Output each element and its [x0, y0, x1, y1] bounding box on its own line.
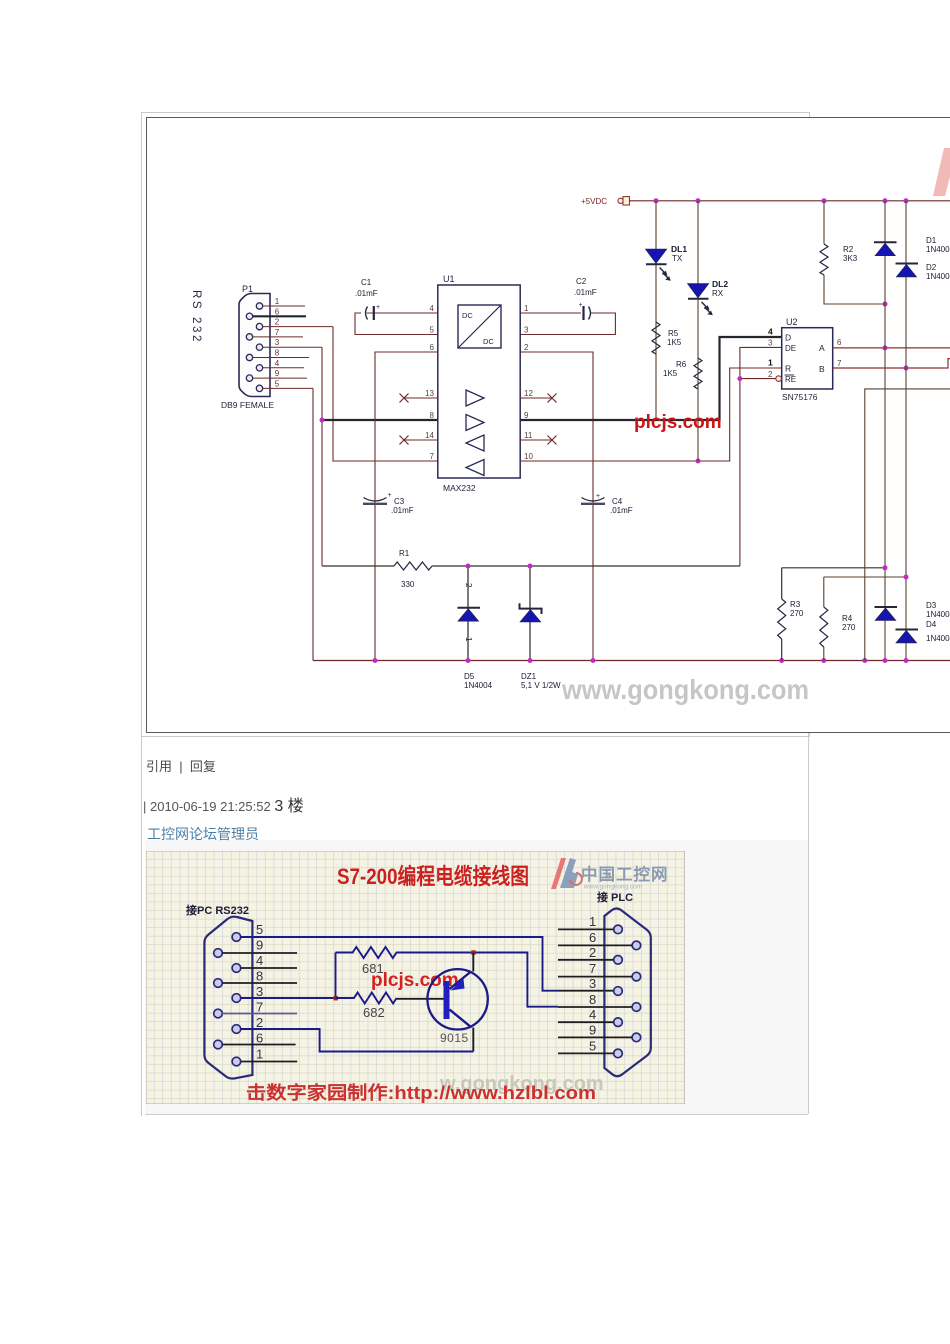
capacitor C1 symbol — [366, 307, 368, 320]
svg-text:5: 5 — [256, 922, 263, 937]
chip U2 SN75176 body — [782, 328, 833, 389]
svg-text:DC: DC — [462, 311, 473, 320]
svg-text:8: 8 — [256, 969, 263, 984]
node emitter junction — [471, 950, 475, 954]
svg-text:9: 9 — [256, 938, 263, 953]
svg-text:www.gongkong.com: www.gongkong.com — [583, 884, 642, 891]
svg-text:+: + — [376, 304, 380, 311]
svg-text:1: 1 — [768, 358, 773, 368]
wire: right pin3 black segment — [559, 990, 614, 992]
SCHEMATIC 2 — [146, 851, 685, 1104]
svg-text:4: 4 — [768, 327, 773, 337]
LED DL2 — [688, 284, 709, 298]
capacitor C4 symbol — [582, 498, 605, 502]
svg-text:S7-200编程电缆接线图: S7-200编程电缆接线图 — [337, 864, 529, 889]
svg-text:6: 6 — [837, 338, 842, 347]
P1 pin 6 thick stub — [253, 315, 306, 317]
gray content panel of post 3 — [145, 840, 808, 1115]
svg-text:.01mF: .01mF — [610, 506, 633, 515]
svg-text:SN75176: SN75176 — [782, 392, 818, 402]
U1 buffer triangles — [466, 390, 484, 476]
svg-text:5,1 V 1/2W: 5,1 V 1/2W — [521, 681, 561, 690]
resistor R5 — [652, 322, 660, 354]
svg-text:D3: D3 — [926, 601, 937, 610]
svg-text:DL1: DL1 — [671, 244, 687, 254]
right DB9 connector body — [604, 909, 650, 1077]
svg-text:8: 8 — [430, 411, 435, 420]
right DB9 pin circles — [614, 925, 641, 1058]
svg-text:R2: R2 — [843, 245, 854, 254]
resistor R2 branch — [824, 201, 885, 304]
svg-text:+: + — [388, 492, 392, 499]
wire: left pin3 to resistor node — [241, 997, 336, 999]
wire: U1 pin2 to C4 and ground rail — [520, 352, 593, 661]
SCHEMATIC 1 — [146, 117, 950, 733]
diode D1 — [874, 241, 897, 243]
svg-text:+: + — [579, 302, 583, 309]
svg-text:C2: C2 — [576, 277, 587, 286]
svg-text:+5VDC: +5VDC — [581, 197, 607, 206]
svg-text:RE: RE — [785, 375, 796, 384]
svg-text:C1: C1 — [361, 278, 372, 287]
svg-text:7: 7 — [430, 452, 435, 461]
left DB9 connector body — [204, 917, 252, 1079]
svg-text:7: 7 — [256, 1000, 263, 1015]
svg-text:12: 12 — [524, 389, 533, 398]
svg-text:.01mF: .01mF — [574, 288, 597, 297]
svg-text:A: A — [819, 343, 825, 353]
svg-text:R3: R3 — [790, 600, 801, 609]
post table right border — [808, 733, 809, 1114]
svg-text:6: 6 — [589, 930, 596, 945]
svg-text:D2: D2 — [926, 263, 937, 272]
junction P1-3/U1-8 — [320, 418, 325, 423]
svg-text:plcjs.com: plcjs.com — [634, 412, 722, 433]
svg-text:1N4004: 1N4004 — [926, 634, 950, 643]
svg-text:3: 3 — [768, 339, 773, 348]
svg-text:RS 232: RS 232 — [190, 290, 202, 344]
svg-text:2: 2 — [524, 343, 529, 352]
junction DE/RE — [737, 376, 742, 381]
forum action links — [146, 756, 216, 775]
P1 pin circles — [246, 303, 262, 392]
svg-text:B: B — [819, 364, 825, 374]
svg-text:7: 7 — [275, 328, 280, 337]
resistor 682 — [336, 993, 397, 1004]
capacitor C3 symbol — [364, 498, 387, 502]
svg-text:DE: DE — [785, 344, 796, 353]
post date line — [143, 792, 304, 816]
zener DZ1 branch — [529, 566, 531, 661]
resistor R3 — [778, 599, 786, 639]
svg-text:2: 2 — [256, 1015, 263, 1030]
svg-text:2: 2 — [589, 945, 596, 960]
svg-text:330: 330 — [401, 580, 415, 589]
diode D1 branch wire — [884, 201, 886, 661]
logo mark — [551, 858, 566, 889]
diode D3 — [875, 606, 898, 608]
transistor collector arm — [450, 1010, 472, 1028]
svg-text:DL2: DL2 — [712, 279, 728, 289]
svg-text:DB9 FEMALE: DB9 FEMALE — [221, 400, 274, 410]
svg-text:接 PLC: 接 PLC — [597, 890, 633, 904]
pink logo fragment top right — [933, 148, 950, 196]
svg-text:10: 10 — [524, 452, 533, 461]
svg-text:4: 4 — [275, 359, 280, 368]
wire: collector down to pin2 row — [472, 1028, 474, 1052]
svg-text:5: 5 — [589, 1039, 596, 1054]
wire: left pin2 jog to collector — [241, 1029, 474, 1052]
svg-text:R6: R6 — [676, 360, 687, 369]
U1 pin12 stub with X — [520, 397, 552, 399]
svg-text:6: 6 — [275, 307, 280, 316]
resistor R1 — [394, 562, 432, 570]
svg-text:1N4004: 1N4004 — [464, 681, 493, 690]
junction R6/pin10 — [696, 459, 701, 464]
node 681/682 junction — [335, 953, 337, 999]
svg-text:R1: R1 — [399, 549, 410, 558]
svg-text:C3: C3 — [394, 497, 405, 506]
right DB9 stub wires — [558, 929, 632, 1053]
right DB9 pin numbers — [589, 914, 596, 1054]
svg-text:.01mF: .01mF — [355, 289, 378, 298]
op chip U1 MAX232 body — [438, 285, 520, 478]
svg-text:5: 5 — [275, 379, 280, 388]
svg-text:1K5: 1K5 — [667, 338, 682, 347]
U1 DC/DC converter block — [458, 305, 501, 348]
resistor R1 wire row — [322, 565, 740, 567]
wire: P1 pin5 to bottom rail — [312, 388, 314, 660]
svg-text:R4: R4 — [842, 614, 853, 623]
svg-text:3: 3 — [524, 326, 529, 335]
capacitor C1 loop wires (U1 pins 4,5) — [355, 313, 438, 335]
capacitor C2 loop wires (U1 pins 1,3) — [520, 313, 615, 335]
svg-text:1N4004: 1N4004 — [926, 245, 950, 254]
wire: emitter up to node — [472, 953, 474, 972]
svg-text:1: 1 — [464, 637, 473, 642]
capacitor C2 symbol — [582, 306, 584, 320]
transistor emitter arm with arrow — [450, 972, 472, 990]
wire: U1 pin10 to R6 bottom and U2 R — [520, 368, 782, 461]
U1 pin14 stub with X — [404, 439, 438, 441]
wire: DL2/R6 branch — [697, 201, 699, 461]
transistor Q1 9015 circle — [427, 969, 487, 1029]
U1 pin11 stub with X — [520, 439, 552, 441]
svg-text:270: 270 — [842, 623, 856, 632]
svg-text:U1: U1 — [443, 274, 455, 284]
svg-text:MAX232: MAX232 — [443, 483, 476, 493]
svg-text:R5: R5 — [668, 329, 679, 338]
svg-text:R: R — [785, 364, 791, 374]
svg-text:13: 13 — [425, 389, 434, 398]
wire: U2 RE pin2 with bubble — [740, 378, 776, 380]
svg-text:14: 14 — [425, 431, 434, 440]
svg-text:9: 9 — [589, 1023, 596, 1038]
wire: U1 pin6 to C3 and ground rail — [375, 352, 438, 661]
svg-text:D5: D5 — [464, 672, 475, 681]
connector P1 DB9 FEMALE body — [239, 294, 270, 397]
svg-text:C4: C4 — [612, 497, 623, 506]
svg-text:2: 2 — [275, 318, 280, 327]
wire: DL1/R5 branch — [655, 201, 657, 420]
wire: U1 pin9 thick to U2 D — [520, 337, 782, 420]
svg-text:1: 1 — [589, 914, 596, 929]
wire: U2 B output with jog — [833, 359, 950, 368]
resistor R4 branch — [824, 577, 906, 661]
U1 pin13 stub with X — [404, 397, 438, 399]
top container box with light border — [141, 112, 810, 737]
wire: base from 682 — [397, 998, 444, 1000]
svg-text:9: 9 — [524, 411, 529, 420]
svg-text:1N4004: 1N4004 — [926, 610, 950, 619]
left DB9 pin circles — [214, 933, 241, 1066]
svg-text:9: 9 — [275, 369, 280, 378]
svg-text:DZ1: DZ1 — [521, 672, 537, 681]
svg-text:U2: U2 — [786, 317, 798, 327]
wire: U2 DE pin3 — [740, 347, 782, 566]
ground rail — [313, 660, 950, 662]
zener DZ1 — [520, 603, 542, 614]
wire: P1 pin2 to U1 pin7 — [333, 327, 438, 461]
svg-text:3: 3 — [275, 338, 280, 347]
svg-text:6: 6 — [256, 1031, 263, 1046]
diode D2 — [896, 263, 919, 265]
svg-text:2: 2 — [464, 583, 473, 588]
svg-text:1: 1 — [524, 304, 529, 313]
svg-text:4: 4 — [589, 1007, 596, 1022]
svg-text:TX: TX — [672, 254, 683, 263]
svg-text:4: 4 — [430, 304, 435, 313]
svg-text:中国工控网: 中国工控网 — [581, 864, 669, 884]
svg-text:1: 1 — [256, 1047, 263, 1062]
svg-text:RX: RX — [712, 289, 724, 298]
svg-text:6: 6 — [430, 343, 435, 352]
svg-text:D4: D4 — [926, 620, 937, 629]
P1 pin numbers — [275, 297, 280, 388]
svg-text:4: 4 — [256, 953, 263, 968]
LED DL1 — [646, 249, 667, 263]
svg-text:接PC RS232: 接PC RS232 — [186, 903, 249, 917]
svg-text:7: 7 — [837, 359, 842, 368]
svg-text:D1: D1 — [926, 236, 937, 245]
schematic 2 paper background — [146, 851, 685, 1104]
wire: right gnd return — [865, 389, 950, 661]
svg-text:7: 7 — [589, 961, 596, 976]
wire: emitter net to right pin8 — [474, 953, 559, 1007]
U1 pin numbers left — [425, 304, 434, 461]
svg-text:1: 1 — [275, 297, 280, 306]
svg-text:1K5: 1K5 — [663, 369, 678, 378]
svg-text:P1: P1 — [242, 284, 253, 294]
resistor R4 — [820, 607, 828, 647]
schematic 1 image background/border — [147, 118, 950, 733]
rail junctions — [654, 198, 659, 203]
diode D4 — [896, 629, 919, 631]
wire: left pin5 to right pin3 — [241, 937, 559, 991]
svg-text:www.gongkong.com: www.gongkong.com — [561, 674, 809, 705]
P1 pin stub wires — [253, 306, 333, 388]
svg-text:DC: DC — [483, 337, 494, 346]
diode D5 branch — [467, 566, 469, 661]
svg-text:3: 3 — [589, 976, 596, 991]
left DB9 stub wires — [222, 953, 297, 1062]
resistor R6 — [694, 358, 702, 389]
U1 pin numbers right — [524, 304, 533, 461]
svg-text:270: 270 — [790, 609, 804, 618]
svg-text:D: D — [785, 333, 791, 343]
username link — [147, 824, 259, 844]
svg-text:682: 682 — [363, 1005, 385, 1020]
svg-text:2: 2 — [768, 370, 773, 379]
+5VDC rail wire — [630, 200, 950, 202]
svg-text:1N4004: 1N4004 — [926, 272, 950, 281]
wire: U2 A output — [833, 347, 950, 349]
svg-text:3K3: 3K3 — [843, 254, 858, 263]
svg-text:11: 11 — [524, 431, 533, 440]
svg-text:9015: 9015 — [440, 1031, 469, 1045]
wire: U1 pin8 thick — [322, 419, 438, 421]
resistor 681 — [336, 947, 474, 958]
diode D5 — [458, 607, 481, 609]
diode D2 branch wire — [905, 201, 907, 661]
svg-text:.01mF: .01mF — [391, 506, 414, 515]
svg-text:8: 8 — [275, 349, 280, 358]
left pin7 stub — [222, 1013, 297, 1015]
transistor base bar — [444, 981, 450, 1019]
left DB9 pin numbers — [256, 922, 263, 1062]
rail junction dots — [373, 658, 378, 663]
wire: P1 pin3 down to U1 pin8 node and R1 — [321, 347, 323, 566]
svg-text:击数字家园制作:http://www.hzlbl.com: 击数字家园制作:http://www.hzlbl.com — [246, 1082, 596, 1103]
resistor R3 branch — [782, 568, 885, 661]
svg-text:+: + — [596, 493, 600, 500]
svg-text:3: 3 — [256, 984, 263, 999]
post table left border — [141, 736, 142, 1116]
svg-text:8: 8 — [589, 992, 596, 1007]
svg-text:5: 5 — [430, 326, 435, 335]
